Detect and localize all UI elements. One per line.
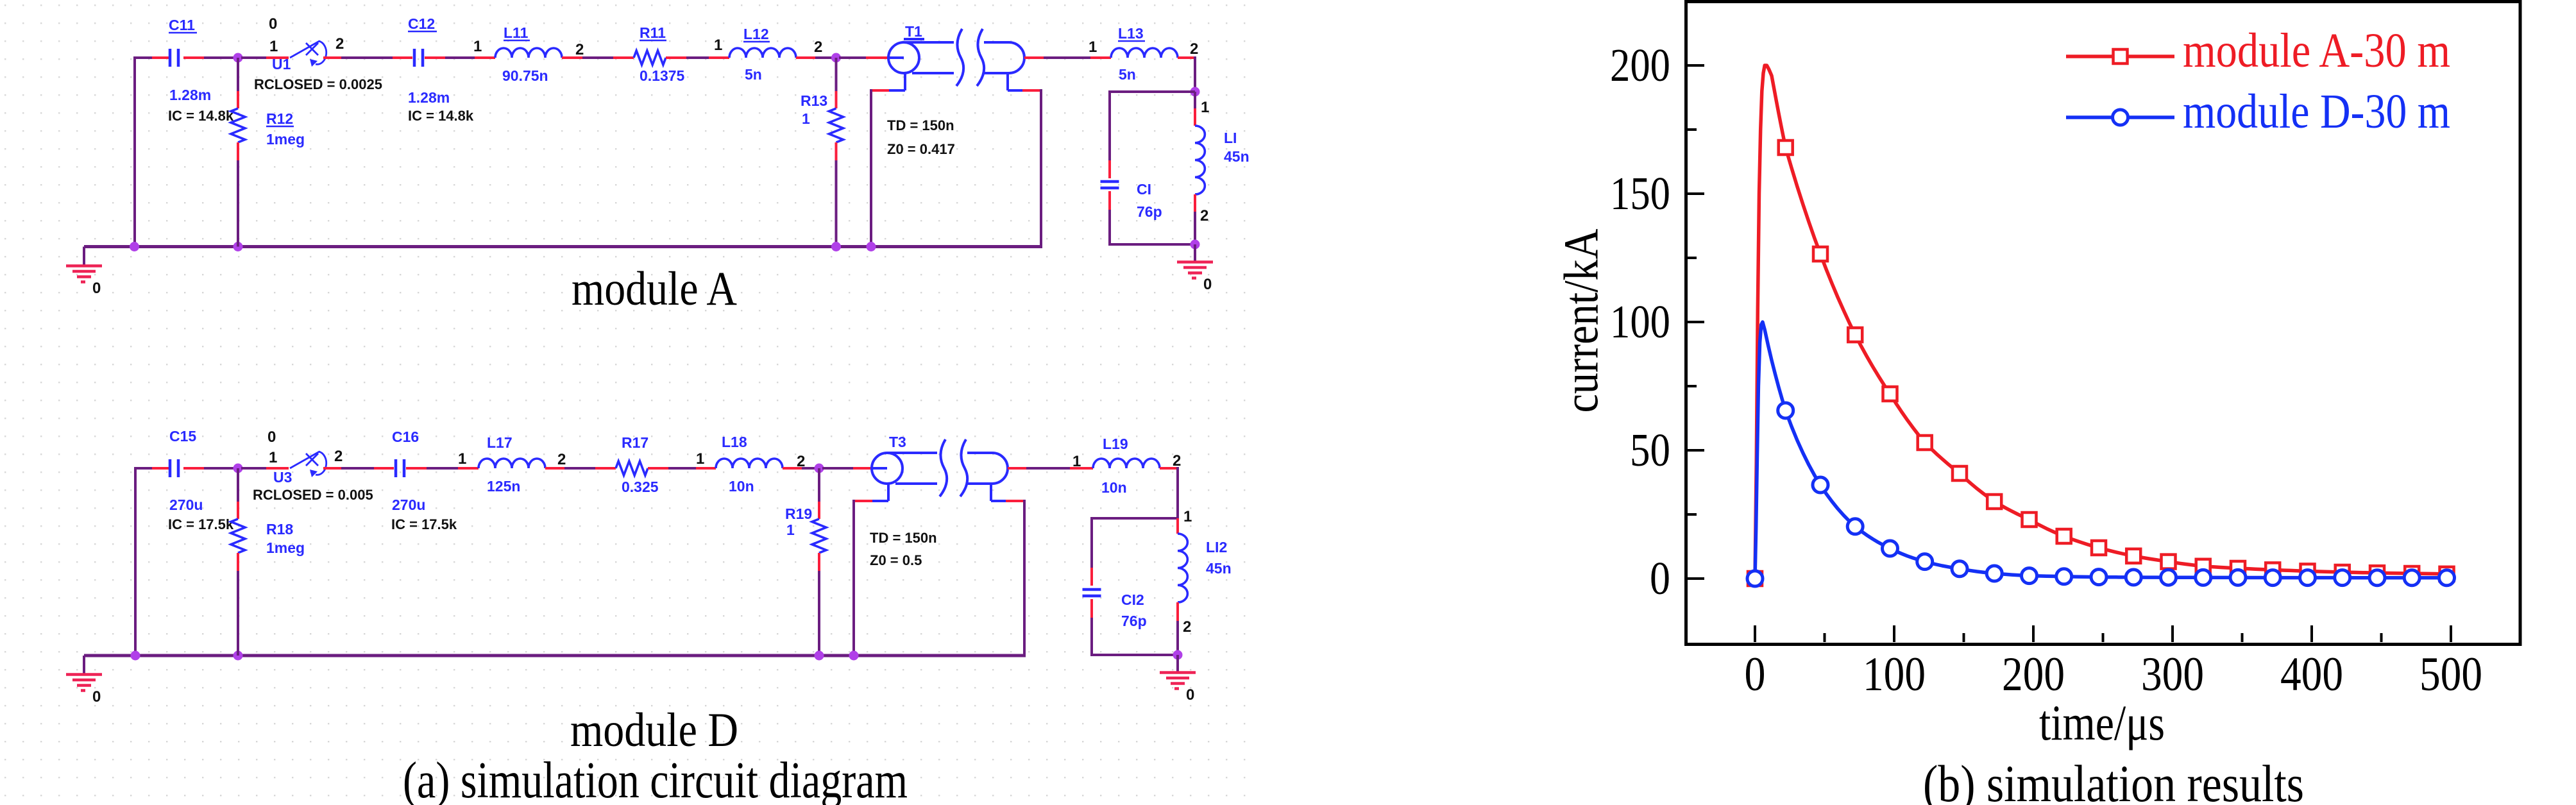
- wire L12 to node: [815, 56, 833, 59]
- wire T1 left return vertical: [870, 89, 872, 247]
- junction rail R19: [815, 651, 824, 661]
- wire T3 right return vertical: [1023, 500, 1026, 656]
- svg-text:1: 1: [1183, 508, 1192, 525]
- junction node after C15: [233, 464, 243, 473]
- curve module D-30 m: [1755, 322, 2447, 579]
- svg-text:IC = 17.5k: IC = 17.5k: [168, 516, 234, 532]
- capacitor CI2 branch: [1090, 517, 1093, 568]
- wire module A top run: [133, 56, 152, 59]
- markers module D-30 m: [1747, 571, 1763, 586]
- legend line module D-30 m: [2066, 115, 2174, 119]
- svg-text:IC = 14.8k: IC = 14.8k: [408, 108, 474, 124]
- wire C12 to L11: [445, 56, 475, 59]
- svg-text:76p: 76p: [1121, 613, 1147, 629]
- inductor L17: [458, 467, 479, 470]
- wire R11 to L12: [686, 56, 709, 59]
- resistor R19 branch: [818, 468, 820, 502]
- wire switch U1 pin2 to C12: [323, 56, 341, 59]
- chart frame: [1686, 2, 2521, 645]
- svg-text:2: 2: [335, 35, 344, 53]
- svg-text:1: 1: [269, 449, 277, 466]
- y axis minor ticks: [1688, 130, 1697, 514]
- wire rail left end down: [83, 247, 85, 249]
- junction node LI2 bottom: [1173, 650, 1183, 660]
- svg-text:2: 2: [1190, 40, 1198, 58]
- svg-text:1: 1: [714, 37, 722, 54]
- svg-text:Z0 = 0.5: Z0 = 0.5: [870, 552, 922, 568]
- svg-text:CI2: CI2: [1121, 591, 1144, 608]
- svg-text:1.28m: 1.28m: [169, 87, 211, 103]
- junction node L12/R13: [831, 53, 841, 63]
- wire loop top horizontal D: [1092, 517, 1178, 520]
- svg-text:1meg: 1meg: [266, 539, 305, 556]
- svg-text:400: 400: [2280, 648, 2343, 701]
- resistor R11: [613, 56, 634, 59]
- svg-text:R17: R17: [622, 434, 648, 451]
- junction node LI bottom: [1191, 240, 1200, 250]
- svg-text:module D: module D: [570, 704, 738, 757]
- resistor R12 branch: [237, 58, 239, 91]
- svg-text:C16: C16: [392, 428, 419, 445]
- ground module A left: [83, 248, 85, 266]
- svg-text:10n: 10n: [1101, 479, 1127, 496]
- capacitor C15: [152, 467, 171, 470]
- wire loop bottom horizontal D: [1090, 654, 1178, 656]
- svg-text:90.75n: 90.75n: [502, 67, 548, 84]
- svg-text:1: 1: [458, 450, 466, 468]
- junction node LI top: [1191, 87, 1200, 97]
- svg-text:U3: U3: [273, 469, 292, 486]
- svg-text:2: 2: [557, 451, 566, 468]
- svg-text:1: 1: [1072, 453, 1081, 470]
- svg-text:5n: 5n: [745, 66, 762, 83]
- svg-text:2: 2: [575, 41, 584, 58]
- inductor L13: [1111, 48, 1178, 58]
- wire C11 to node: [204, 56, 235, 59]
- svg-text:R11: R11: [640, 24, 666, 41]
- curve module A-30 m: [1755, 65, 2447, 579]
- T1 right pigtail: [1006, 73, 1009, 90]
- capacitor C11: [152, 56, 171, 59]
- wire L13 down to node: [1194, 56, 1196, 92]
- wire L18 to node: [802, 467, 816, 470]
- svg-text:R13: R13: [801, 92, 827, 109]
- inductor L19: [1093, 459, 1160, 468]
- wire node to T1: [839, 56, 866, 59]
- junction rail R12: [233, 242, 243, 251]
- markers module A-30 m: [1748, 572, 1762, 586]
- svg-text:LI: LI: [1224, 130, 1237, 146]
- capacitor CI branch: [1108, 90, 1111, 160]
- svg-text:2: 2: [814, 38, 822, 56]
- wire L11 to R11: [582, 56, 613, 59]
- wire node to switch U3: [241, 467, 266, 470]
- svg-text:IC = 17.5k: IC = 17.5k: [391, 516, 457, 532]
- svg-text:1: 1: [786, 521, 795, 538]
- svg-text:CI: CI: [1137, 181, 1151, 198]
- svg-text:10n: 10n: [729, 478, 754, 495]
- T1 left pigtail: [904, 73, 906, 90]
- junction rail D left vertical: [131, 651, 140, 661]
- svg-text:U1: U1: [272, 56, 291, 72]
- svg-text:2: 2: [334, 448, 343, 465]
- svg-text:0.325: 0.325: [622, 479, 659, 495]
- wire T3 left return vertical: [852, 500, 855, 656]
- wire node to T3: [822, 467, 853, 470]
- svg-text:(a) simulation circuit diagram: (a) simulation circuit diagram: [403, 752, 908, 805]
- svg-text:0: 0: [1745, 648, 1766, 701]
- svg-text:1: 1: [269, 38, 278, 55]
- svg-text:200: 200: [1610, 39, 1670, 91]
- svg-text:2: 2: [1173, 452, 1181, 470]
- svg-text:IC = 14.8k: IC = 14.8k: [168, 108, 234, 124]
- svg-text:RCLOSED = 0.0025: RCLOSED = 0.0025: [254, 76, 382, 92]
- svg-text:0: 0: [267, 428, 276, 446]
- junction rail left vertical: [130, 242, 139, 251]
- svg-text:0: 0: [1203, 276, 1212, 293]
- svg-text:module A-30 m: module A-30 m: [2183, 24, 2450, 78]
- inductor L12: [709, 56, 729, 59]
- svg-text:(b) simulation results: (b) simulation results: [1923, 754, 2304, 805]
- wire L17 to R17: [564, 467, 595, 470]
- svg-text:C12: C12: [408, 15, 435, 32]
- svg-text:time/μs: time/μs: [2039, 695, 2165, 750]
- svg-text:module D-30 m: module D-30 m: [2183, 85, 2450, 139]
- svg-text:5n: 5n: [1119, 66, 1136, 83]
- svg-text:R19: R19: [785, 505, 812, 522]
- svg-text:2: 2: [1183, 618, 1191, 636]
- svg-text:1meg: 1meg: [266, 131, 305, 148]
- svg-text:45n: 45n: [1224, 148, 1250, 165]
- ground module A right: [1194, 244, 1196, 262]
- T3 right pigtail: [990, 484, 992, 501]
- x axis minor ticks: [1825, 633, 2382, 642]
- wire module D top run: [134, 467, 152, 470]
- T3 left pigtail: [887, 484, 890, 501]
- svg-text:module A: module A: [572, 262, 737, 316]
- svg-text:300: 300: [2141, 648, 2204, 701]
- junction rail R13: [831, 242, 841, 251]
- svg-text:R12: R12: [266, 110, 293, 127]
- svg-text:0: 0: [92, 688, 101, 706]
- wire T1 output to L13: [1024, 56, 1044, 59]
- svg-text:L12: L12: [743, 26, 769, 42]
- junction rail R18: [233, 651, 243, 661]
- svg-text:0.1375: 0.1375: [640, 67, 685, 84]
- svg-text:150: 150: [1610, 167, 1670, 219]
- capacitor C16: [374, 467, 394, 470]
- svg-text:500: 500: [2419, 648, 2482, 701]
- wire C15 to node: [204, 467, 235, 470]
- wire module A left vertical: [133, 58, 136, 247]
- svg-text:1: 1: [1089, 38, 1097, 56]
- wire loop top horizontal: [1110, 90, 1195, 93]
- junction rail T3 left return: [849, 651, 859, 661]
- transmission line T1: [888, 42, 919, 73]
- svg-text:100: 100: [1610, 296, 1670, 348]
- svg-text:76p: 76p: [1137, 203, 1162, 220]
- resistor R18 branch: [237, 468, 239, 502]
- svg-text:TD = 150n: TD = 150n: [870, 530, 937, 546]
- svg-text:TD = 150n: TD = 150n: [887, 117, 954, 133]
- svg-text:270u: 270u: [169, 496, 203, 513]
- bottom rail module D: [84, 654, 1026, 657]
- svg-text:0: 0: [1186, 686, 1194, 704]
- resistor R13 branch: [835, 58, 838, 91]
- x axis major ticks: [1755, 625, 2451, 642]
- wire C16 to L17: [427, 467, 458, 470]
- svg-text:L13: L13: [1118, 25, 1144, 42]
- y axis major ticks: [1688, 65, 1704, 579]
- junction rail T1 left return: [867, 242, 876, 251]
- capacitor C12: [393, 56, 412, 59]
- wire T3 output to L19: [1008, 467, 1026, 470]
- legend line module A-30 m: [2066, 55, 2174, 58]
- svg-text:0: 0: [92, 280, 101, 297]
- switch U3: [290, 452, 319, 468]
- inductor LI branch: [1194, 92, 1196, 108]
- wire module D left vertical: [134, 468, 137, 656]
- svg-text:current/kA: current/kA: [1554, 228, 1608, 412]
- svg-text:270u: 270u: [392, 496, 425, 513]
- inductor L11: [475, 56, 495, 59]
- svg-text:200: 200: [2002, 648, 2065, 701]
- ground module D left: [83, 657, 85, 674]
- svg-text:LI2: LI2: [1206, 539, 1227, 555]
- svg-text:1: 1: [1201, 99, 1209, 116]
- inductor LI2 branch: [1176, 518, 1179, 534]
- schematic grid background: [0, 0, 1251, 805]
- svg-text:L11: L11: [504, 24, 529, 41]
- wire L19 down to loop top: [1176, 467, 1179, 520]
- svg-text:0: 0: [269, 15, 277, 33]
- switch U1: [290, 41, 319, 58]
- svg-text:L17: L17: [487, 434, 513, 451]
- svg-text:RCLOSED = 0.005: RCLOSED = 0.005: [253, 487, 373, 503]
- svg-text:125n: 125n: [487, 478, 520, 495]
- wire node to switch U1: [241, 56, 266, 59]
- svg-text:Z0 = 0.417: Z0 = 0.417: [887, 141, 955, 157]
- ground module D right: [1176, 655, 1179, 672]
- svg-text:L18: L18: [722, 434, 747, 450]
- svg-text:0: 0: [1650, 552, 1670, 604]
- svg-text:1: 1: [802, 110, 810, 127]
- svg-text:45n: 45n: [1206, 560, 1232, 577]
- bottom rail module A: [84, 245, 1042, 248]
- svg-text:50: 50: [1630, 424, 1670, 476]
- svg-text:L19: L19: [1103, 436, 1128, 452]
- svg-text:T3: T3: [889, 434, 906, 450]
- svg-text:1.28m: 1.28m: [408, 89, 450, 106]
- svg-text:C11: C11: [169, 17, 195, 33]
- svg-text:R18: R18: [266, 521, 293, 538]
- wire rail D left end down: [83, 656, 85, 657]
- junction node L18/R19: [815, 464, 824, 473]
- resistor R17: [595, 467, 616, 470]
- inductor L18: [696, 467, 716, 470]
- svg-text:100: 100: [1863, 648, 1926, 701]
- wire T1 right return vertical: [1040, 89, 1042, 247]
- svg-text:1: 1: [696, 450, 704, 468]
- svg-text:C15: C15: [169, 428, 196, 445]
- svg-text:T1: T1: [905, 23, 922, 40]
- wire loop bottom horizontal: [1108, 243, 1195, 246]
- junction node after C11: [233, 53, 243, 63]
- svg-text:1: 1: [473, 38, 482, 55]
- wire switch U3 pin2 to C16: [323, 467, 341, 470]
- svg-text:2: 2: [1200, 207, 1208, 225]
- transmission line T3: [872, 453, 902, 484]
- wire R17 to L18: [668, 467, 696, 470]
